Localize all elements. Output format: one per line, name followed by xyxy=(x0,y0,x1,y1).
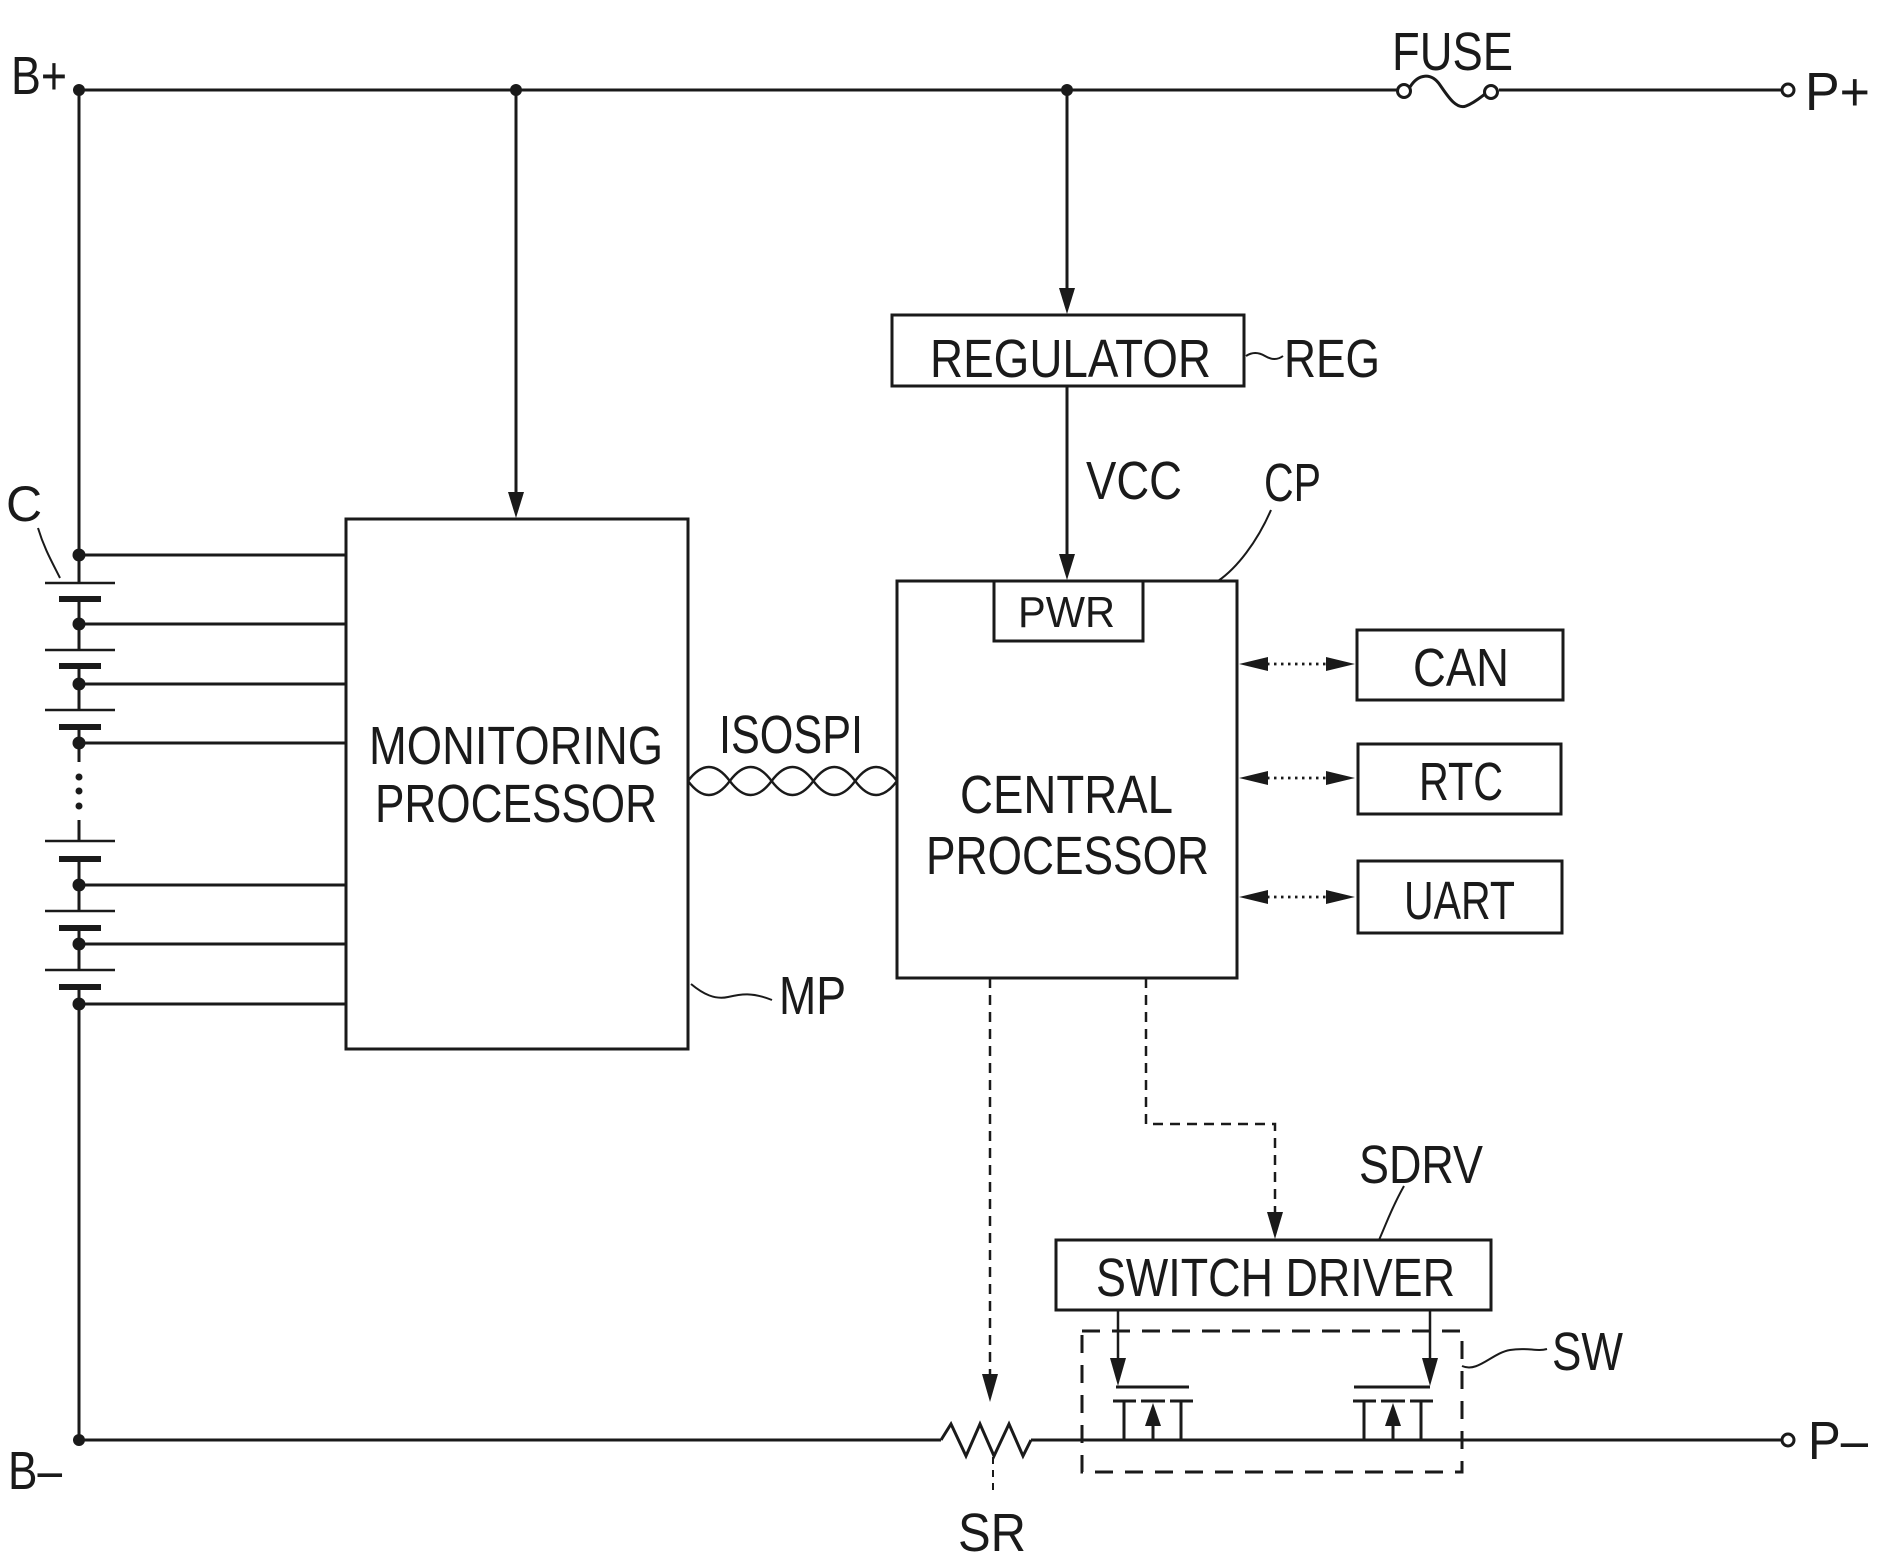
svg-text:CAN: CAN xyxy=(1413,638,1509,698)
svg-text:ISOSPI: ISOSPI xyxy=(719,705,863,765)
node junction dot at monitoring drop xyxy=(510,84,522,96)
svg-text:FUSE: FUSE xyxy=(1392,22,1513,82)
label leader SW xyxy=(1462,1349,1547,1367)
wire sense tap 4 xyxy=(84,742,346,745)
svg-text:REG: REG xyxy=(1284,329,1380,389)
node ellipsis dots (more cells) xyxy=(76,774,83,810)
transistor Q2 (right MOSFET) xyxy=(1353,1387,1433,1440)
wire left rail to B- xyxy=(78,987,81,1440)
battery cell 2 xyxy=(45,650,115,666)
battery cell 3 xyxy=(45,710,115,727)
central processor box CP xyxy=(897,581,1237,978)
svg-text:VCC: VCC xyxy=(1086,451,1182,511)
wire CP sense dashed line to SR xyxy=(982,978,998,1402)
node B- junction dot xyxy=(73,1434,85,1446)
wire below cell 3 xyxy=(78,727,81,762)
svg-text:P+: P+ xyxy=(1805,62,1870,122)
wire sense tap 1 xyxy=(84,554,346,557)
wire between cells xyxy=(78,859,81,911)
label leader SDRV xyxy=(1379,1186,1404,1240)
wire sense tap 6 xyxy=(84,943,346,946)
resistor SR xyxy=(941,1424,1031,1456)
peripheral box RTC xyxy=(1358,744,1561,814)
wire gate drive right xyxy=(1422,1310,1438,1386)
wire between cells xyxy=(78,928,81,970)
peripheral box UART xyxy=(1358,861,1562,933)
node cell tap dots xyxy=(73,549,86,1011)
node junction dot at regulator drop xyxy=(1061,84,1073,96)
twisted pair ISOSPI xyxy=(688,767,897,795)
svg-text:SR: SR xyxy=(958,1503,1026,1553)
power block PWR xyxy=(994,581,1143,641)
svg-text:C: C xyxy=(6,476,42,532)
wire between cells xyxy=(78,599,81,650)
wire sense tap 7 xyxy=(84,1003,346,1006)
label leader C xyxy=(38,528,60,578)
regulator box REG xyxy=(892,315,1244,386)
battery cell 1 xyxy=(45,583,115,599)
wire VCC line regulator to PWR xyxy=(1066,386,1069,556)
wire CP-CAN bidirectional arrow xyxy=(1239,657,1355,671)
wire gate drive left xyxy=(1110,1310,1126,1386)
svg-text:MP: MP xyxy=(779,966,846,1026)
battery cell 4 xyxy=(45,841,115,859)
wire sense tap 5 xyxy=(84,884,346,887)
wire CP-UART bidirectional arrow xyxy=(1239,890,1355,904)
svg-text:SWITCH DRIVER: SWITCH DRIVER xyxy=(1096,1248,1455,1308)
svg-text:CENTRAL: CENTRAL xyxy=(960,765,1173,825)
wire CP-RTC bidirectional arrow xyxy=(1239,771,1355,785)
svg-text:PROCESSOR: PROCESSOR xyxy=(926,826,1209,886)
wire top rail right (fuse to P+) xyxy=(1499,89,1781,92)
svg-text:REGULATOR: REGULATOR xyxy=(930,329,1211,389)
switch block SW dashed box xyxy=(1082,1331,1462,1472)
wire SR lower sense tail xyxy=(992,1457,994,1492)
monitoring processor box MP xyxy=(346,519,688,1049)
wire regulator drop xyxy=(1066,90,1069,290)
svg-text:P–: P– xyxy=(1808,1411,1868,1471)
terminal P- xyxy=(1782,1434,1794,1446)
switch driver box SDRV xyxy=(1056,1240,1491,1310)
wire left rail (B+ down to first cell tap) xyxy=(78,90,81,583)
svg-text:PWR: PWR xyxy=(1018,588,1115,637)
wire between cells xyxy=(78,666,81,710)
label leader MP xyxy=(691,984,772,1000)
transistor Q1 (left MOSFET) xyxy=(1113,1387,1193,1440)
wire top rail left (B+ to fuse) xyxy=(79,89,1397,92)
wire REG label tick xyxy=(1246,353,1283,359)
svg-text:SDRV: SDRV xyxy=(1359,1135,1483,1195)
peripheral box CAN xyxy=(1357,630,1563,700)
wire above cell 4 xyxy=(78,820,81,841)
svg-text:SW: SW xyxy=(1552,1322,1623,1382)
label leader CP xyxy=(1218,510,1271,581)
svg-text:RTC: RTC xyxy=(1419,752,1503,812)
fuse FUSE xyxy=(1398,76,1498,106)
svg-text:MONITORING: MONITORING xyxy=(369,716,663,776)
svg-text:CP: CP xyxy=(1264,453,1321,513)
node B+ junction dot xyxy=(73,84,85,96)
svg-text:UART: UART xyxy=(1404,871,1515,931)
wire bottom rail right xyxy=(1031,1439,1781,1442)
battery cell 5 xyxy=(45,911,115,928)
wire CP control dashed line to switch driver xyxy=(1146,978,1283,1239)
svg-text:B–: B– xyxy=(8,1441,62,1501)
wire sense tap 3 xyxy=(84,683,346,686)
wire monitoring drop xyxy=(515,90,518,494)
wire bottom rail left xyxy=(79,1439,941,1442)
battery cell 6 xyxy=(45,970,115,987)
wire sense tap 2 xyxy=(84,623,346,626)
svg-text:B+: B+ xyxy=(11,46,67,106)
svg-text:PROCESSOR: PROCESSOR xyxy=(375,774,657,834)
terminal P+ xyxy=(1782,84,1794,96)
